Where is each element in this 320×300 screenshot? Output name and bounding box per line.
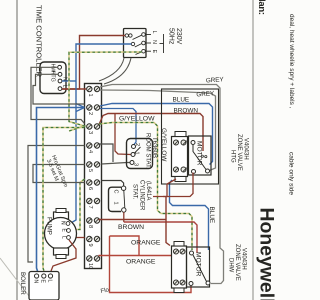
left page margin line [16,0,18,300]
label BOILER [19,272,26,295]
terminal 5 [87,162,100,172]
svg-text:N: N [33,280,39,284]
pencil note middle-left [45,155,68,189]
wire g/yellow terminal 3 to DHW valve [99,123,192,251]
svg-text:BOILER: BOILER [19,272,26,295]
svg-text:T6360B: T6360B [151,137,157,158]
svg-text:N: N [60,221,66,225]
label 1 (room stat) [134,152,140,155]
label 3 (room stat) [133,163,139,166]
label N (boiler) [33,280,39,284]
bottom-left page crease [0,258,32,300]
label 230V 50Hz [168,28,183,45]
svg-text:10: 10 [87,263,93,269]
svg-text:1: 1 [134,152,140,155]
label L (boiler) [47,280,53,283]
label E (boiler) [40,280,46,284]
label 2 (room stat) [134,143,140,146]
wire grey terminal 4 staircase to room stat 3 line [99,144,113,162]
svg-text:HTG: HTG [230,150,236,163]
svg-text:ZONE VALVE: ZONE VALVE [236,134,242,171]
wire grey link terminal 5 to terminal 6 [33,165,85,183]
DHW valve connector block [172,242,187,293]
wire brown terminal 3 to HTG motor [99,114,203,152]
svg-text:MOTOR: MOTOR [196,141,203,166]
svg-text:L: L [62,85,68,88]
terminal 2 [87,105,100,115]
svg-text:PUMP: PUMP [46,217,53,235]
svg-text:4: 4 [87,150,93,153]
pencil note right margin [288,14,296,195]
svg-text:ORANGE: ORANGE [131,240,161,247]
label ORANGE 2 [126,259,156,266]
svg-text:V4043H: V4043H [241,248,247,270]
svg-text:230V: 230V [175,28,182,45]
wire brown down to DHW connector [166,197,170,246]
svg-text:L: L [47,280,53,283]
svg-text:N: N [151,40,157,44]
label L (tc) [62,85,68,88]
label Honeywell [256,208,277,300]
svg-text:C: C [113,190,119,194]
wire grey terminal 5 to room stat 3 [102,163,131,165]
wire grey HTG TC to terminal 2 [33,74,85,104]
wire blue terminal 2 to HTG motor [100,104,213,165]
wire brown L isolator to TC L and terminal 1 [62,36,125,90]
svg-text:50Hz: 50Hz [168,28,175,45]
label L641A CYLINDER STAT. [132,180,152,211]
pencil scribble bottom middle [100,287,110,295]
label E (pump) [61,229,67,233]
wire brown junction to pump L [71,237,85,239]
wire grey terminal 4 long loop to boiler area [28,146,85,263]
svg-text:ZONE VALVE: ZONE VALVE [234,244,240,281]
label Plan: (top right margin) [256,0,267,15]
wire black terminal 6 to cyl stat C [102,181,124,186]
svg-text:8: 8 [87,225,93,228]
right page margin line [252,0,254,300]
label N (pump) [60,221,66,225]
svg-text:2: 2 [87,112,93,115]
HTG zone valve enclosure [162,89,219,184]
label BLUE (top) [173,97,190,104]
terminal 10 [87,256,100,269]
svg-text:ORANGE: ORANGE [126,259,156,266]
label T6360B ROOM STAT. [145,133,158,169]
terminal 7 [87,198,100,208]
wire blue terminal 2 to room stat 2 [100,109,136,145]
terminal 4 [87,143,100,153]
wire stub cyl stat 1 down [123,212,125,222]
wire g/yellow E isolator to terminal 3 [69,52,142,131]
wire grey terminal 1 over HTG valve down to DHW valve [100,85,224,284]
label G/YELLOW (vertical) [160,128,167,162]
boiler box [29,272,59,300]
label GREY (inner) [196,90,215,98]
wire blue HTG motor down to DHW motor [170,180,209,250]
wires isolator bottom to junction top [99,58,131,84]
svg-text:1: 1 [87,94,93,97]
label BROWN (lower) [118,224,144,231]
svg-text:E: E [40,280,46,284]
isolator supply stubs [145,35,151,52]
wire grey terminal 1 into HTG valve switch [100,90,216,171]
svg-text:STAT.: STAT. [132,184,138,200]
svg-text:cable only side: cable only side [288,152,295,195]
label L (pump) [61,236,67,239]
label HW [50,64,56,74]
svg-text:ROOM STAT.: ROOM STAT. [145,133,151,169]
svg-text:HTG: HTG [50,71,56,82]
label C (cyl stat) [113,190,119,194]
wire blue terminal 2 to boiler N [37,108,85,272]
svg-text:7: 7 [87,206,93,209]
label BROWN (top) [174,108,199,115]
wire brown HTG block to switch [153,173,193,197]
label V4043H ZONE VALVE DHW [228,244,247,281]
label GREY (outer) [206,76,225,84]
label L (isolator) [151,31,157,34]
svg-text:9: 9 [87,244,93,247]
label V4043H ZONE VALVE HTG [230,134,249,171]
terminal 1 [87,86,100,96]
terminal 6 [87,180,100,190]
wire brown pump L to boiler L [51,240,76,271]
label ORANGE 1 [131,240,161,247]
svg-text:V4043H: V4043H [243,138,249,160]
wire orange staircase terminal 10 [99,236,192,293]
terminal 8 [87,218,100,228]
svg-text:L: L [61,236,67,239]
time controller box [40,62,66,94]
svg-text:E: E [151,50,157,54]
HTG valve motor box [189,136,212,175]
svg-text:1: 1 [113,202,119,205]
supply bracket [160,34,164,53]
svg-text:G/YELLOW: G/YELLOW [119,116,155,123]
wire red cyl stat run to DHW motor [124,222,197,253]
svg-text:6: 6 [87,187,93,190]
cylinder stat L641A box [109,186,127,212]
wire grey HW TC to terminal 3 [31,67,85,123]
svg-text:3: 3 [133,163,139,166]
svg-text:BROWN: BROWN [118,224,144,231]
svg-text:GREY: GREY [196,90,215,98]
wire g/yellow terminal 3 to boiler E [43,128,85,272]
DHW valve motor box [187,247,210,287]
label N (tc) [62,77,68,81]
label TIME CONTROLLER [35,5,44,78]
terminal 3 [87,124,100,134]
pump [45,209,77,259]
wire brown branch to room stat 1 [115,114,131,155]
svg-text:BLUE: BLUE [173,97,190,104]
room stat T6360B box [127,139,153,169]
svg-text:5: 5 [87,169,93,172]
mains isolator switch box [124,29,147,58]
svg-text:(L641A: (L641A [145,181,151,200]
svg-text:Plan:: Plan: [256,0,267,15]
wire g/yellow terminal 6 to pump E [71,179,85,230]
label BLUE (vertical) [208,207,215,224]
svg-text:CYLINDER: CYLINDER [139,180,145,211]
svg-text:BROWN: BROWN [174,108,199,115]
svg-text:3: 3 [87,131,93,134]
junction box terminal strip [85,84,102,269]
DHW valve aux switch [189,251,210,286]
svg-text:L: L [151,31,157,34]
label N (isolator) [151,40,157,44]
HTG valve aux switch [191,141,210,174]
wire blue N isolator to TC N and terminal 2 [62,44,131,224]
svg-text:GREY: GREY [206,76,225,84]
svg-text:deal, heat wheelie spry + labe: deal, heat wheelie spry + labels , [288,14,295,109]
svg-text:BLUE: BLUE [208,207,215,224]
svg-text:2: 2 [134,143,140,146]
label PUMP [46,217,53,235]
svg-text:DHW: DHW [228,258,234,273]
label G/YELLOW (horizontal) [119,116,155,123]
wire brown terminal 8 to DHW connector [99,219,167,221]
label 1 (cyl stat) [113,202,119,205]
HTG valve connector block [172,132,188,182]
svg-text:Honeywell: Honeywell [256,208,277,300]
terminal 9 [87,236,100,246]
label HTG [50,71,56,82]
label E (isolator) [151,50,157,54]
